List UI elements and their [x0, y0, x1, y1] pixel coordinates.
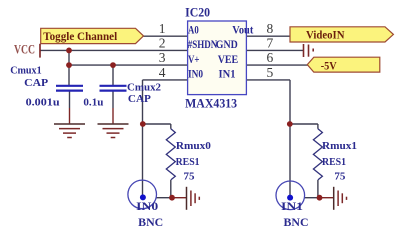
svg-text:BNC: BNC [284, 217, 309, 229]
svg-text:5: 5 [267, 65, 274, 80]
svg-text:0.001u: 0.001u [26, 96, 60, 108]
svg-text:MAX4313: MAX4313 [185, 96, 237, 110]
svg-text:Cmux1: Cmux1 [10, 65, 42, 77]
svg-text:Cmux2: Cmux2 [127, 81, 161, 93]
svg-text:CAP: CAP [128, 93, 151, 105]
svg-text:3: 3 [159, 50, 166, 65]
svg-text:BNC: BNC [138, 217, 163, 229]
svg-text:V+: V+ [188, 52, 200, 66]
svg-text:6: 6 [267, 50, 274, 65]
svg-text:Rmux1: Rmux1 [322, 140, 357, 152]
svg-text:CAP: CAP [24, 77, 48, 89]
svg-text:0.1u: 0.1u [83, 96, 103, 108]
svg-text:1: 1 [159, 21, 166, 36]
svg-text:VCC: VCC [14, 43, 35, 57]
svg-text:IN1: IN1 [219, 67, 236, 81]
svg-text:75: 75 [184, 170, 196, 182]
svg-text:A0: A0 [188, 22, 199, 36]
svg-text:IN0: IN0 [136, 201, 158, 213]
svg-text:Rmux0: Rmux0 [176, 140, 212, 152]
svg-text:VideoIN: VideoIN [306, 27, 345, 41]
svg-text:VEE: VEE [218, 52, 239, 66]
svg-text:2: 2 [159, 35, 166, 50]
svg-text:Toggle Channel: Toggle Channel [43, 29, 118, 43]
svg-text:#SHDN: #SHDN [188, 37, 218, 51]
svg-text:4: 4 [159, 65, 166, 80]
svg-text:75: 75 [334, 171, 346, 183]
svg-text:GND: GND [216, 37, 238, 51]
svg-text:IC20: IC20 [185, 5, 210, 19]
svg-text:-5V: -5V [321, 58, 337, 72]
svg-text:7: 7 [267, 35, 274, 50]
svg-text:IN0: IN0 [188, 67, 203, 81]
svg-text:Vout: Vout [232, 22, 253, 36]
svg-text:8: 8 [267, 21, 274, 36]
svg-text:RES1: RES1 [322, 156, 346, 168]
svg-text:RES1: RES1 [176, 156, 200, 168]
svg-text:IN1: IN1 [281, 201, 303, 213]
